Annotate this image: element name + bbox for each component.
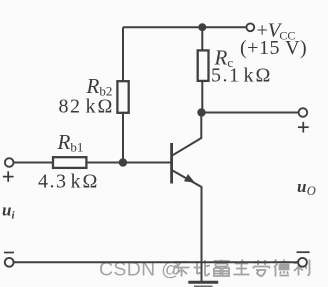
char dong bbox=[174, 262, 190, 277]
transistor Q: emitter arrow bbox=[184, 174, 195, 183]
terminal: +Vcc bbox=[246, 23, 254, 31]
transistor Q: emitter lead bbox=[173, 171, 202, 263]
svg-text:(+15 V): (+15 V) bbox=[240, 37, 307, 59]
transistor Q: base bar bbox=[170, 143, 173, 184]
char bei bbox=[194, 260, 211, 276]
resistor Rc bbox=[198, 50, 209, 81]
transistor Q: collector lead bbox=[173, 113, 202, 156]
terminal: output + (upper-right) bbox=[299, 108, 308, 117]
wire: vertical from Rb2 bottom to base node bbox=[122, 113, 124, 163]
resistor Rb2 bbox=[117, 81, 128, 113]
svg-text:ui: ui bbox=[2, 201, 15, 222]
resistor Rb1 bbox=[53, 157, 86, 168]
wire: from Rc bottom to collector node bbox=[201, 81, 203, 113]
wire: output wire from collector node to output terminal bbox=[202, 112, 298, 114]
terminal: input + (upper-left) bbox=[5, 158, 14, 167]
terminal: lower-right - bbox=[298, 258, 307, 267]
char li bbox=[294, 260, 310, 276]
watermark CSDN @dongbeibazhulaodeli bbox=[99, 259, 310, 281]
wire: Rb1 to transistor base bbox=[87, 162, 171, 164]
polarity - at lower-right bbox=[297, 251, 310, 253]
char de bbox=[274, 260, 290, 277]
wire: bottom rail from lower-left terminal to lower-right terminal bbox=[14, 261, 298, 263]
svg-text:4.3kΩ: 4.3kΩ bbox=[38, 171, 99, 193]
wire: vertical from top rail down to Rb2 bbox=[122, 27, 124, 81]
char zhu bbox=[234, 260, 250, 275]
ground bbox=[188, 262, 218, 286]
svg-text:uO: uO bbox=[297, 177, 316, 198]
svg-text:5.1kΩ: 5.1kΩ bbox=[211, 65, 272, 87]
terminal: lower-left - bbox=[5, 258, 14, 267]
node: top rail / Rc column junction bbox=[198, 23, 206, 31]
char ba bbox=[214, 260, 230, 277]
polarity + at input bbox=[3, 171, 14, 182]
wire: input terminal to Rb1 bbox=[14, 162, 53, 164]
wire: vertical from top rail down to Rc bbox=[201, 27, 203, 50]
polarity - at lower-left bbox=[4, 252, 14, 254]
svg-text:Rb1: Rb1 bbox=[57, 130, 84, 155]
node: base junction (Rb1/Rb2/base) bbox=[119, 158, 127, 166]
node: collector / output junction bbox=[197, 108, 205, 116]
svg-text:82kΩ: 82kΩ bbox=[59, 95, 114, 117]
wire: top rail from upper-left corner to Vcc terminal bbox=[123, 26, 246, 28]
polarity + at output bbox=[298, 122, 309, 133]
char lao bbox=[254, 260, 270, 277]
